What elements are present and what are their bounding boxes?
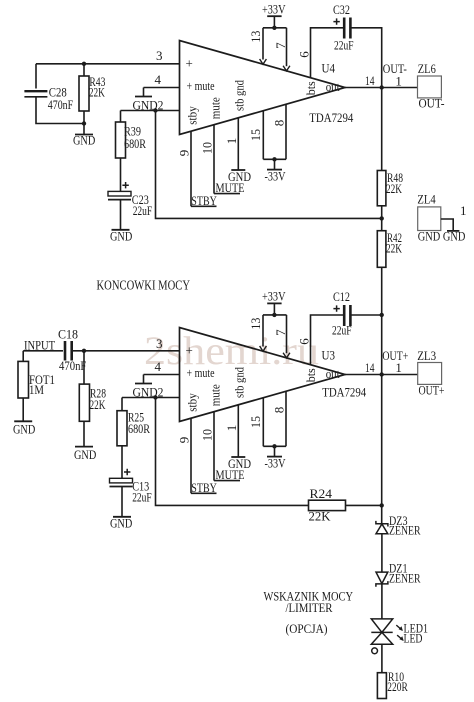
- wire C28 top lead: [35, 64, 37, 89]
- pin number 10 of U3: [199, 429, 214, 441]
- pin number 4 of U4: [155, 72, 162, 87]
- wire rail C12 junction down to U3 output: [381, 315, 383, 375]
- wire pin 9 stby (lower): [190, 418, 192, 493]
- wire C32 to output rail: [350, 28, 381, 88]
- svg-text:22K: 22K: [309, 509, 332, 524]
- connector ZL3 pin name OUT+: [419, 382, 445, 397]
- zener DZ1 type label ZENER: [389, 570, 421, 585]
- pin number 3 of U3: [156, 336, 163, 351]
- junction -33V header (lower): [272, 444, 276, 448]
- svg-text:6: 6: [296, 51, 311, 58]
- svg-text:+ mute: + mute: [187, 365, 215, 380]
- op-amp U4 label out: [326, 79, 340, 94]
- wire DZ1 to LED pair: [381, 584, 383, 619]
- svg-text:1: 1: [460, 203, 467, 218]
- svg-text:LED: LED: [404, 630, 423, 645]
- wire pin-4 stub down to GND2 bar (lower): [143, 375, 145, 384]
- wire C13 bottom to ground: [121, 487, 123, 517]
- svg-text:stby: stby: [185, 393, 200, 412]
- svg-text:GND GND: GND GND: [418, 229, 466, 244]
- section title (OPCJA): [286, 621, 328, 636]
- capacitor C28 designator: [49, 84, 67, 99]
- wire rail to DZ3: [381, 505, 383, 523]
- capacitor C13 value 22uF: [132, 489, 152, 504]
- svg-text:+ mute: + mute: [187, 78, 215, 93]
- wire R24 to rail junction: [346, 504, 382, 506]
- junction pin-3 node / R43 top: [82, 62, 86, 66]
- ground bar under C13: [113, 516, 131, 518]
- svg-text:22uF: 22uF: [332, 322, 352, 337]
- svg-text:stb gnd: stb gnd: [232, 80, 247, 111]
- net label MUTE (lower): [216, 467, 245, 482]
- op-amp U3 label stb gnd: [232, 367, 247, 398]
- section title /LIMITER: [286, 600, 333, 615]
- svg-text:22K: 22K: [89, 84, 105, 99]
- section title WSKAZNIK MOCY: [264, 588, 354, 603]
- svg-text:GND: GND: [110, 229, 132, 244]
- zener diode DZ1: [376, 572, 388, 587]
- wire to ground under R43: [83, 124, 85, 135]
- svg-text:8: 8: [272, 407, 287, 414]
- pin number 13 of U4: [248, 31, 263, 43]
- wire MUTE label underline (upper): [214, 193, 240, 195]
- svg-text:+: +: [186, 343, 193, 358]
- zener DZ3 type label ZENER: [389, 522, 421, 537]
- wire U4 output to ZL6: [345, 87, 418, 89]
- svg-text:680R: 680R: [128, 421, 150, 436]
- connector ZL6 body: [418, 76, 442, 98]
- svg-text:U4: U4: [322, 60, 336, 75]
- svg-text:mute: mute: [208, 384, 223, 406]
- junction +33V header (upper): [272, 26, 276, 30]
- photoresistor FOT1 designator: [29, 372, 55, 387]
- connector ZL4 body: [418, 207, 441, 231]
- svg-text:OUT-: OUT-: [419, 96, 445, 111]
- power label -33V (upper): [265, 168, 286, 183]
- wire -33V stem (lower): [274, 446, 276, 456]
- wire feedback from R24 to inverting node (lower): [156, 398, 309, 506]
- wire -33V header (upper): [263, 158, 286, 160]
- pin number 1 of ZL6: [395, 74, 402, 89]
- wire C18 to pin-3 node (lower): [72, 350, 180, 352]
- capacitor C12 plates: [344, 305, 350, 326]
- resistor R48 body: [377, 171, 386, 206]
- wire ZL4 pin 1 to ground: [441, 219, 453, 231]
- capacitor C28 value 470nF: [48, 97, 73, 112]
- pin number 15 of U4: [248, 129, 263, 141]
- svg-text:6: 6: [296, 338, 311, 345]
- ground bar under R28: [75, 446, 93, 448]
- resistor R39 designator: [124, 124, 141, 139]
- wire pin 13 supply (upper): [262, 28, 264, 60]
- junction inverting node / feedback (upper): [153, 108, 157, 112]
- resistor R39 value 680R: [124, 136, 146, 151]
- svg-text:bts: bts: [303, 81, 318, 95]
- wire U3 pin 4: [144, 374, 180, 376]
- wire output rail to R48: [381, 88, 383, 171]
- svg-text:220R: 220R: [387, 679, 408, 694]
- ground label GND under C13: [110, 515, 132, 530]
- svg-text:8: 8: [272, 120, 287, 127]
- wire pin-3 node to U4 pin 3 (upper): [36, 63, 180, 65]
- power bar -33V (upper): [267, 169, 282, 171]
- photoresistor FOT1 value 1M: [29, 382, 44, 397]
- pin number 10 of U4: [199, 142, 214, 154]
- wire +33V stem (upper): [273, 16, 275, 28]
- capacitor C12 value 22uF: [332, 322, 352, 337]
- junction +33V header (lower): [272, 313, 276, 317]
- wire +33V header (lower): [263, 314, 287, 316]
- svg-text:TDA7294: TDA7294: [322, 385, 366, 400]
- net label OUT- (upper): [383, 61, 407, 76]
- junction C12 / rail: [380, 313, 384, 317]
- svg-text:22uF: 22uF: [334, 37, 354, 52]
- net label GND2 (upper): [133, 97, 164, 112]
- wire R43 top lead: [83, 64, 85, 76]
- svg-text:KONCOWKI MOCY: KONCOWKI MOCY: [97, 278, 191, 293]
- pin number 13 of U3: [248, 318, 263, 330]
- svg-text:ZENER: ZENER: [389, 522, 421, 537]
- capacitor C13 plates: [110, 478, 133, 486]
- power bar -33V (lower): [267, 456, 282, 458]
- wire pin 8 supply (upper): [285, 104, 287, 159]
- wire MUTE label underline (lower): [214, 480, 240, 482]
- resistor R42 value 22K: [386, 241, 402, 256]
- connector ZL4 pin names GND GND: [418, 229, 466, 244]
- svg-text:out: out: [326, 366, 340, 381]
- svg-text:7: 7: [273, 329, 288, 336]
- pin number 1 of ZL3: [395, 360, 402, 375]
- pin number 7 of U3: [273, 329, 288, 336]
- svg-text:1: 1: [224, 425, 239, 432]
- wire C28 bottom lead: [36, 97, 84, 124]
- wire R42 top lead: [381, 218, 383, 230]
- op-amp U4 part number TDA7294: [309, 110, 353, 125]
- svg-text:mute: mute: [208, 97, 223, 119]
- LED arrow 2: [397, 635, 404, 641]
- wire R48 bottom to divider node: [381, 206, 383, 219]
- pin number 1 of ZL4: [460, 203, 467, 218]
- net label INPUT: [24, 337, 55, 352]
- svg-text:15: 15: [248, 416, 263, 428]
- capacitor C13 polarity plus: [124, 469, 130, 475]
- junction -33V header (upper): [272, 157, 276, 161]
- svg-text:9: 9: [177, 150, 192, 157]
- wire R25 bottom to C13: [121, 446, 123, 479]
- svg-text:bts: bts: [303, 368, 318, 382]
- wire U3 pin 6 to C12: [311, 315, 344, 365]
- photoresistor FOT1 body: [18, 361, 29, 398]
- LED arrow 1: [396, 625, 403, 631]
- op-amp U3 label + (pin3 noninverting): [186, 343, 193, 358]
- svg-text:4: 4: [155, 72, 162, 87]
- resistor R24 body: [309, 500, 346, 510]
- svg-text:(OPCJA): (OPCJA): [286, 621, 328, 636]
- wire pin 13 supply (lower): [262, 315, 264, 347]
- resistor R10 body: [377, 673, 386, 699]
- svg-text:GND: GND: [13, 421, 35, 436]
- svg-text:14: 14: [365, 73, 375, 88]
- svg-text:3: 3: [156, 336, 163, 351]
- wire +33V header (upper): [263, 27, 287, 29]
- capacitor C32 polarity plus: [333, 18, 339, 24]
- svg-text:1M: 1M: [29, 382, 44, 397]
- junction U3 output node: [380, 372, 384, 376]
- resistor R43 designator: [89, 74, 105, 89]
- arrowhead pin 7 (lower): [283, 353, 290, 358]
- capacitor C23 plates: [108, 191, 131, 199]
- pin number 1 of U3: [224, 425, 239, 432]
- op-amp U4 label bts: [303, 81, 318, 95]
- op-amp U4 label stb gnd: [232, 80, 247, 111]
- op-amp U4 label mute: [208, 97, 223, 119]
- resistor R24 designator: [310, 486, 333, 501]
- svg-text:stby: stby: [185, 106, 200, 125]
- svg-text:13: 13: [248, 318, 263, 330]
- zener DZ3 designator: [389, 513, 408, 528]
- ground label GND under C23: [110, 229, 132, 244]
- resistor R43 value 22K: [89, 84, 105, 99]
- svg-text:3: 3: [156, 48, 163, 63]
- svg-text:OUT+: OUT+: [419, 382, 445, 397]
- junction inverting node / feedback (lower): [153, 395, 157, 399]
- ground bar under R43: [75, 134, 93, 136]
- node open circle below LED pair: [372, 648, 378, 654]
- ground label GND under R43: [73, 133, 95, 148]
- LED1 designator: [404, 621, 429, 636]
- wire FOT1 bottom to ground: [22, 398, 24, 421]
- op-amp U4 label '+ mute' (pin4): [187, 78, 215, 93]
- svg-text:4: 4: [155, 359, 162, 374]
- wire STBY label underline (upper): [191, 205, 217, 207]
- resistor R25 designator: [128, 410, 144, 425]
- resistor R42 designator: [387, 230, 402, 245]
- op-amp U3 label '+ mute' (pin4): [187, 365, 215, 380]
- svg-text:GND: GND: [73, 133, 95, 148]
- resistor R42 body: [377, 231, 386, 268]
- svg-text:13: 13: [248, 31, 263, 43]
- svg-text:U3: U3: [322, 347, 336, 362]
- svg-text:ZENER: ZENER: [389, 570, 421, 585]
- pin number 15 of U3: [248, 416, 263, 428]
- wire U4 pin 6 to C32: [311, 28, 344, 78]
- wire pin 1 stb-gnd to ground (lower): [237, 405, 239, 457]
- net label STBY (upper): [191, 193, 217, 208]
- svg-text:stb gnd: stb gnd: [232, 367, 247, 398]
- wire -33V stem (upper): [274, 159, 276, 169]
- wire pin-4 stub down to GND2 bar: [143, 88, 145, 97]
- connector ZL3 body: [418, 363, 442, 385]
- resistor R28 body: [79, 384, 89, 421]
- pin number 9 of U3: [177, 437, 192, 444]
- ground bar GND2 (upper): [135, 96, 152, 98]
- svg-text:14: 14: [365, 360, 375, 375]
- wire pin 9 stby (upper): [190, 131, 192, 206]
- wire pin 1 stb-gnd to ground (upper): [237, 118, 239, 170]
- wire U4 pin 4: [144, 87, 180, 89]
- ground bar under C23: [112, 229, 130, 231]
- svg-text:ZL3: ZL3: [417, 348, 436, 363]
- connector ZL3 designator: [417, 348, 436, 363]
- wire STBY label underline (lower): [191, 492, 217, 494]
- watermark 2shemi.ru: [144, 328, 319, 373]
- svg-text:680R: 680R: [124, 136, 146, 151]
- wire R28 top lead: [83, 351, 85, 384]
- ground label GND at pin 1 (upper): [228, 169, 251, 184]
- svg-text:C32: C32: [333, 2, 350, 17]
- junction divider node: [380, 216, 384, 220]
- arrowhead pin 7 (upper): [283, 66, 290, 71]
- power label +33V (lower): [262, 289, 286, 304]
- capacitor C18 plates: [65, 341, 72, 361]
- wire R39 bottom to C23: [120, 158, 122, 191]
- svg-text:10: 10: [199, 429, 214, 441]
- svg-text:15: 15: [248, 129, 263, 141]
- pin number 14 of U4: [365, 73, 375, 88]
- capacitor C13 designator: [132, 479, 149, 494]
- resistor R25 value 680R: [128, 421, 150, 436]
- power bar +33V (lower): [267, 302, 281, 304]
- capacitor C28 plates: [24, 91, 47, 97]
- svg-text:9: 9: [177, 437, 192, 444]
- pin number 4 of U3: [155, 359, 162, 374]
- svg-text:+: +: [186, 56, 193, 71]
- wire -33V header (lower): [263, 445, 286, 447]
- resistor R10 designator: [388, 669, 404, 684]
- op-amp U3 label mute: [208, 384, 223, 406]
- svg-text:+33V: +33V: [262, 289, 286, 304]
- svg-text:470nF: 470nF: [59, 358, 86, 373]
- svg-text:22K: 22K: [386, 241, 402, 256]
- svg-text:22uF: 22uF: [132, 489, 152, 504]
- wire feedback from divider to inverting node (upper): [156, 111, 382, 219]
- ground label GND under FOT1: [13, 421, 35, 436]
- net label MUTE (upper): [216, 180, 245, 195]
- power label +33V (upper): [262, 1, 286, 16]
- pin number 3 of U4: [156, 48, 163, 63]
- resistor R24 value 22K: [309, 509, 332, 524]
- wire R39 top lead: [120, 111, 122, 123]
- svg-text:1: 1: [224, 138, 239, 145]
- svg-text:GND: GND: [74, 447, 96, 462]
- net label STBY (lower): [191, 480, 217, 495]
- resistor R28 value 22K: [90, 397, 106, 412]
- wire LED pair to R10: [381, 644, 383, 673]
- capacitor C23 value 22uF: [133, 203, 153, 218]
- op-amp U4 designator U4: [322, 60, 336, 75]
- op-amp U3 part number TDA7294: [322, 385, 366, 400]
- resistor R28 designator: [90, 385, 106, 400]
- svg-text:R24: R24: [310, 486, 333, 501]
- power label -33V (lower): [265, 455, 286, 470]
- resistor R43 body: [79, 76, 89, 111]
- pin number 1 of U4: [224, 138, 239, 145]
- wire pin 10 mute (upper): [213, 125, 215, 194]
- svg-text:470nF: 470nF: [48, 97, 73, 112]
- net label OUT+ (lower): [382, 348, 408, 363]
- wire pin 15 supply (lower): [262, 398, 264, 447]
- op-amp U3 designator U3: [322, 347, 336, 362]
- ground bar under FOT1: [14, 420, 32, 422]
- junction R24 / zener rail: [380, 503, 384, 507]
- svg-text:C18: C18: [58, 326, 78, 341]
- pin number 14 of U3: [365, 360, 375, 375]
- svg-text:-33V: -33V: [265, 455, 286, 470]
- ground label GND at pin 1 (lower): [228, 456, 251, 471]
- op-amp U3 label bts: [303, 368, 318, 382]
- junction U4 output node: [380, 85, 384, 89]
- wire pin 7 supply (lower): [286, 315, 288, 353]
- svg-text:1: 1: [395, 74, 402, 89]
- wire pin 10 mute (lower): [213, 412, 215, 481]
- wire R28 bottom to ground: [83, 421, 85, 446]
- ground bar at pin 1 (lower): [231, 456, 245, 458]
- zener DZ1 designator: [389, 561, 408, 576]
- svg-text:+33V: +33V: [262, 1, 286, 16]
- pin number 7 of U4: [273, 42, 288, 49]
- wire DZ3 to DZ1: [381, 534, 383, 572]
- ground label GND under R28: [74, 447, 96, 462]
- svg-text:ZL4: ZL4: [417, 192, 436, 207]
- svg-text:GND: GND: [228, 169, 251, 184]
- wire FOT1 top lead: [22, 351, 24, 362]
- ground bar at ZL4: [447, 230, 459, 232]
- capacitor C12 designator: [333, 289, 350, 304]
- resistor R39 body: [116, 122, 126, 158]
- svg-text:7: 7: [273, 42, 288, 49]
- capacitor C18 value 470nF: [59, 358, 86, 373]
- section title KONCOWKI MOCY: [97, 278, 191, 293]
- wire pin 8 supply (lower): [285, 391, 287, 446]
- wire rail U3 output down to limiter: [381, 375, 383, 506]
- svg-text:GND: GND: [228, 456, 251, 471]
- ground bar GND2 (lower): [135, 383, 152, 385]
- wire pin 7 supply (upper): [286, 28, 288, 66]
- capacitor C23 polarity plus: [122, 182, 128, 188]
- pin number 6 of U4: [296, 51, 311, 58]
- LED pair LED1/LED anti-parallel symbol: [371, 619, 392, 644]
- arrowhead pin 13 (upper): [260, 59, 267, 64]
- wire C23 bottom to ground: [120, 200, 122, 230]
- svg-text:22K: 22K: [386, 181, 402, 196]
- wire C12 to output rail: [350, 314, 381, 316]
- op-amp U3 TDA7294 body: [180, 328, 346, 422]
- pin number 6 of U3: [296, 338, 311, 345]
- pin number 8 of U3: [272, 407, 287, 414]
- wire +33V stem (lower): [273, 303, 275, 315]
- wire inverting node to U3 (lower): [122, 397, 180, 399]
- svg-text:22K: 22K: [90, 397, 106, 412]
- svg-text:TDA7294: TDA7294: [309, 110, 353, 125]
- wire U3 output to ZL3: [345, 374, 418, 376]
- op-amp U4 label + (pin3 noninverting): [186, 56, 193, 71]
- capacitor C18 designator: [58, 326, 78, 341]
- op-amp U4 TDA7294 body: [180, 41, 346, 135]
- svg-text:-33V: -33V: [265, 168, 286, 183]
- op-amp U3 label stby: [185, 393, 200, 412]
- connector ZL4 designator: [417, 192, 436, 207]
- wire R25 top lead: [121, 398, 123, 411]
- resistor R25 body: [117, 411, 127, 446]
- arrowhead pin 13 (lower): [260, 346, 267, 351]
- capacitor C23 designator: [132, 192, 149, 207]
- resistor R48 value 22K: [386, 181, 402, 196]
- svg-text:1: 1: [395, 360, 402, 375]
- wire pin 15 supply (upper): [262, 111, 264, 160]
- resistor R10 value 220R: [387, 679, 408, 694]
- wire inverting node to U4 (upper): [121, 110, 180, 112]
- wire R42 bottom down rail: [381, 267, 383, 315]
